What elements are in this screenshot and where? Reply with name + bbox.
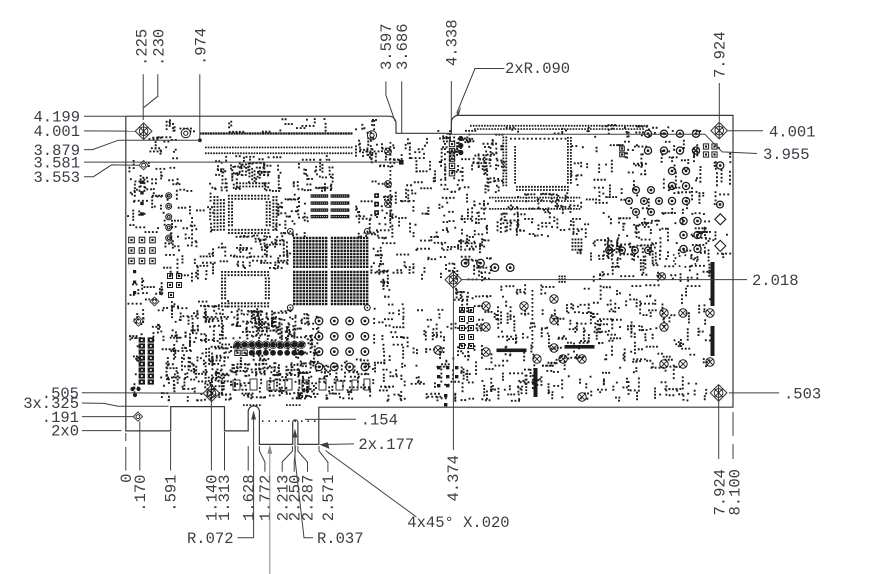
dimension 8.100 [726,412,744,516]
small diamond pad left [134,316,144,326]
dimension 3.879 [33,140,199,160]
via grid block 4x4 [572,239,583,251]
square pad column left [140,181,143,216]
hollow diamond right A [715,214,726,225]
svg-text:.170: .170 [132,475,150,512]
svg-text:.974: .974 [193,28,211,65]
dimension 2.287 [298,446,318,521]
tooling hole small fiducial (.191) [133,412,142,421]
svg-text:3.955: 3.955 [763,146,810,164]
dimension 4.338 [444,19,462,133]
svg-text:.591: .591 [163,475,181,512]
dimension 2xR.090 [456,60,571,116]
BGA U6 ball grid quadrants [293,237,368,305]
dimension .230 [144,29,169,108]
dimension 3.686 [394,23,412,133]
square pads left singles [133,270,136,294]
connector J1 pin row 2 [205,147,353,149]
PCB board outline [126,115,733,444]
dimension 3.597 [378,23,396,120]
svg-text:2.018: 2.018 [752,272,799,290]
dot cluster on 2.018 line [559,276,566,283]
IC U2 (QFP) [502,137,571,191]
svg-text:2x.177: 2x.177 [358,436,414,454]
dimension 2.213 [274,446,292,521]
dimension 2.250 [286,446,304,521]
connector J3 pin rows mid right [489,197,580,210]
dimension 2.571 [319,446,338,521]
pad dot .974 end [198,138,202,142]
BGA corner ring pads [287,229,370,311]
fiducial F1 top-left [135,123,152,140]
hex pad rows top right [644,130,699,154]
svg-text:.154: .154 [361,411,398,429]
hex pad right edge lower [717,201,724,208]
svg-text:2.571: 2.571 [320,475,338,522]
dimension 4x45 X.020 chamfer note [325,450,510,532]
pad bar horizontal D [497,349,527,353]
svg-text:.225: .225 [133,29,151,66]
dimension 3.553 [33,165,139,187]
header J4 [139,337,154,384]
pad row E1 round pads [234,341,306,349]
svg-text:R.072: R.072 [187,530,234,548]
dimension 4.001 left [33,123,135,141]
dotted column x390 [390,142,392,228]
dimension .154 [262,411,398,429]
square pads right of memory [374,193,379,215]
dimension 1.772 [257,446,275,521]
resistor row above U1 [236,182,267,187]
leader R.072 [187,411,256,549]
svg-text:4.001: 4.001 [33,123,80,141]
filled circles x460 [458,136,463,155]
dimension .974 [193,28,211,139]
dimension 4.199 [33,109,125,127]
dimension 4.374 [445,288,463,502]
xpad column x388 [385,148,392,207]
pad bar right edge A [711,262,715,306]
svg-text:1.772: 1.772 [257,475,275,522]
xpad at 2.018 line [658,273,665,280]
svg-text:R.037: R.037 [317,530,364,548]
dimension 2x.177 [319,436,414,454]
dimension 1.628 [241,446,259,521]
leader R.037 [293,429,364,549]
square pad column x452 [449,141,454,176]
ring pad B [367,131,376,140]
small diamond pad left2 [150,297,159,306]
dimension .170 [132,422,150,512]
tooling hole small fiducial (3.553) [139,161,148,170]
dotted oval outline [673,254,698,267]
square pad column x462-472 [460,308,474,349]
filled dot pair bottom-left edge [130,387,140,397]
dimension 3.581 [33,154,403,172]
dotted column via row [532,290,534,348]
svg-text:2x0: 2x0 [51,423,79,441]
svg-text:2xR.090: 2xR.090 [505,60,570,78]
square pad grid left mid [129,237,156,264]
connector J2 pin row top right [470,125,648,130]
hex pad 2x3 grid right [680,217,701,252]
pin row above bottom edge [243,404,301,406]
hex pad pairs right [668,167,689,204]
pad bar right edge B [711,326,715,356]
fiducial F5 bottom-right [710,385,727,402]
hex pads above mid fiducial [461,259,514,271]
dimension .225 [133,29,151,120]
svg-text:4.001: 4.001 [769,123,816,141]
svg-text:8.100: 8.100 [726,469,744,516]
dimension .591 [163,432,181,512]
dimension 3.955 [447,134,810,164]
dimension 3x.325 [23,395,168,413]
dimension 7.924 bottom [712,399,730,516]
square pads 2x2 top right [703,144,717,157]
connector J1 pin row 3 [205,152,353,154]
hollow diamond right B [715,240,726,251]
ring pad A (.974 target) [181,129,190,138]
dimension 2x0 [51,423,121,441]
svg-text:4.374: 4.374 [445,455,463,502]
svg-text:4.338: 4.338 [444,19,462,66]
fiducial F4 bottom-left [203,385,220,402]
via column ring pads [166,193,172,241]
ring pad row y250 [606,247,652,254]
fiducial F3 middle [445,272,462,289]
dimension 1.313 [216,432,234,521]
svg-text:4x45° X.020: 4x45° X.020 [407,514,509,532]
dimension 2.018 [462,272,799,290]
section leader vertical [267,445,272,574]
filled square cluster bottom left of right half [437,366,458,406]
pad row E2 round pads [235,350,304,356]
svg-text:3.553: 3.553 [33,169,80,187]
passives flanking U1 [213,196,277,231]
svg-text:1.628: 1.628 [241,475,259,522]
mount pad grid bottom center (4x4 hex) [315,317,369,371]
IC U3 (QFP) [221,271,270,307]
dimension 0 [118,433,136,483]
pad bar horizontal E [565,345,595,349]
hex pad cluster mid [626,187,663,216]
svg-text:.230: .230 [150,29,168,66]
hex pad right edge [717,162,724,169]
dimension .503 [729,385,821,403]
memory ICs U4/U5 pad bars [311,194,350,218]
square pad pair x622 [620,146,625,157]
dimension 1.140 [204,399,222,521]
dimension 4.001 right [728,123,816,141]
scattered component pads [127,118,731,402]
svg-text:1.313: 1.313 [216,475,234,522]
mount pads bottom right scattered [434,295,714,401]
svg-text:2.287: 2.287 [300,475,318,522]
oval dotted outline [673,254,675,256]
pad bar vertical C [534,368,538,397]
dimension .191 [42,409,133,427]
square pad column x170 lower [168,274,182,298]
dot column x444 [444,143,446,176]
dimension 7.924 top [712,31,730,121]
connector J1 pin row 1 [200,132,353,134]
svg-text:3.686: 3.686 [394,23,412,70]
svg-text:.503: .503 [784,385,821,403]
IC U1 (QFP) [228,195,271,234]
svg-text:7.924: 7.924 [712,31,730,78]
dimension .505 [42,385,204,403]
fiducial F2 top-right [711,122,728,139]
component outline row bottom band [233,379,370,390]
